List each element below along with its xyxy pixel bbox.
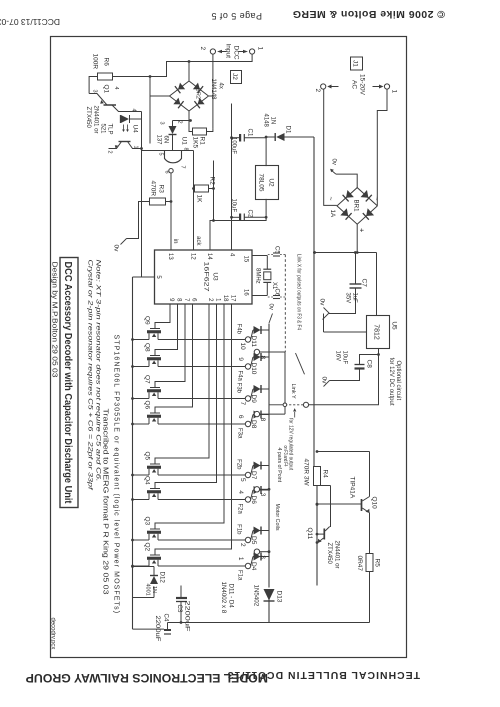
svg-text:13: 13 xyxy=(167,253,173,260)
svg-text:Q3: Q3 xyxy=(143,516,150,525)
svg-text:on F3 and F4: on F3 and F4 xyxy=(282,445,288,466)
svg-text:F2b: F2b xyxy=(235,459,241,470)
svg-text:1N4002 x 8: 1N4002 x 8 xyxy=(220,581,227,613)
svg-text:17: 17 xyxy=(229,294,235,301)
svg-text:10uF: 10uF xyxy=(341,350,347,364)
svg-text:2N4401 or: 2N4401 or xyxy=(92,105,98,133)
svg-text:C2: C2 xyxy=(246,209,253,217)
svg-text:1N: 1N xyxy=(151,586,157,593)
svg-text:1K5: 1K5 xyxy=(191,136,198,148)
svg-text:4: 4 xyxy=(228,253,234,257)
svg-text:2: 2 xyxy=(239,543,246,547)
svg-text:0v: 0v xyxy=(330,158,336,164)
svg-text:D9: D9 xyxy=(250,394,257,403)
svg-text:0v: 0v xyxy=(320,376,327,384)
svg-text:BR2: BR2 xyxy=(194,87,200,98)
svg-text:1: 1 xyxy=(256,46,263,50)
svg-text:16V: 16V xyxy=(334,350,340,361)
svg-text:10: 10 xyxy=(239,342,246,350)
svg-text:C7: C7 xyxy=(360,278,367,287)
svg-text:TIP41A: TIP41A xyxy=(348,476,355,498)
svg-text:4: 4 xyxy=(237,490,244,494)
svg-text:1: 1 xyxy=(132,145,138,148)
svg-text:6: 6 xyxy=(163,170,169,173)
svg-text:1N5402: 1N5402 xyxy=(252,584,259,606)
svg-text:0v: 0v xyxy=(318,298,325,306)
svg-text:R1: R1 xyxy=(198,136,205,145)
svg-text:Q11: Q11 xyxy=(306,527,313,539)
svg-text:0R47: 0R47 xyxy=(356,555,363,571)
svg-text:U4: U4 xyxy=(131,124,138,133)
svg-text:4 pairs of Point: 4 pairs of Point xyxy=(276,447,282,482)
svg-text:6: 6 xyxy=(190,298,196,302)
svg-text:in: in xyxy=(172,238,178,243)
svg-text:~: ~ xyxy=(372,196,379,200)
svg-text:1K: 1K xyxy=(195,194,202,203)
svg-text:1N: 1N xyxy=(269,116,275,124)
svg-text:J2: J2 xyxy=(231,73,238,80)
svg-text:7: 7 xyxy=(183,298,189,302)
svg-text:F2a: F2a xyxy=(236,503,242,514)
svg-text:TLP: TLP xyxy=(106,123,112,134)
svg-text:C3: C3 xyxy=(176,604,183,612)
svg-text:C4: C4 xyxy=(162,613,169,621)
svg-text:1: 1 xyxy=(390,89,397,93)
svg-text:R5: R5 xyxy=(373,558,380,567)
svg-text:1A: 1A xyxy=(329,209,336,217)
svg-text:D13: D13 xyxy=(275,590,282,602)
svg-text:3: 3 xyxy=(259,555,266,559)
svg-text:4: 4 xyxy=(113,86,119,89)
svg-text:3: 3 xyxy=(259,492,266,496)
svg-text:Link X for pulsed outputs on F: Link X for pulsed outputs on F3 & F4 xyxy=(295,254,301,330)
svg-text:Design by M.P.Bolton 29 05 0: Design by M.P.Bolton 29 05 03 xyxy=(50,261,57,377)
svg-text:DCC Accessory Decoder with Cap: DCC Accessory Decoder with Capacitor Dis… xyxy=(62,261,73,504)
svg-text:Q5: Q5 xyxy=(143,451,150,460)
svg-text:U3: U3 xyxy=(211,272,218,281)
svg-text:12: 12 xyxy=(189,253,195,260)
svg-text:D11 - D4: D11 - D4 xyxy=(227,583,234,608)
svg-text:8: 8 xyxy=(182,147,188,150)
svg-text:C5: C5 xyxy=(273,246,279,254)
svg-text:Q10: Q10 xyxy=(370,496,377,509)
svg-text:3: 3 xyxy=(158,121,164,124)
svg-text:AC: AC xyxy=(350,79,357,88)
svg-text:78L05: 78L05 xyxy=(257,173,264,191)
svg-text:+: + xyxy=(357,228,366,233)
svg-text:7812: 7812 xyxy=(372,324,379,340)
svg-text:1uF: 1uF xyxy=(351,292,357,303)
svg-text:137: 137 xyxy=(155,134,161,145)
svg-text:DCC: DCC xyxy=(232,45,239,59)
svg-text:2: 2 xyxy=(199,46,206,50)
svg-text:9: 9 xyxy=(168,298,174,302)
svg-text:0v: 0v xyxy=(112,244,119,252)
svg-text:470R: 470R xyxy=(149,180,156,196)
svg-text:2200uF: 2200uF xyxy=(154,615,161,641)
svg-text:~: ~ xyxy=(326,196,333,200)
svg-text:D11: D11 xyxy=(250,335,257,347)
svg-text:7: 7 xyxy=(179,165,185,168)
svg-text:2200uF: 2200uF xyxy=(183,600,190,631)
svg-text:F1b: F1b xyxy=(235,524,241,535)
svg-text:D6: D6 xyxy=(250,495,257,504)
svg-text:100uF: 100uF xyxy=(230,137,236,154)
svg-text:2N4401 or: 2N4401 or xyxy=(333,540,339,568)
svg-text:U1: U1 xyxy=(180,136,187,145)
svg-text:D1: D1 xyxy=(284,125,291,133)
svg-text:Q1: Q1 xyxy=(102,84,109,93)
svg-text:Q6: Q6 xyxy=(143,400,150,409)
svg-text:ZTX450: ZTX450 xyxy=(326,542,332,564)
svg-text:Input: Input xyxy=(224,43,231,58)
svg-text:R4: R4 xyxy=(321,469,328,478)
svg-text:4x: 4x xyxy=(217,82,223,88)
svg-text:R2: R2 xyxy=(208,176,215,185)
svg-text:14: 14 xyxy=(206,253,212,260)
svg-text:7: 7 xyxy=(239,401,246,405)
svg-text:Q7: Q7 xyxy=(143,375,150,384)
svg-text:5: 5 xyxy=(155,275,161,279)
svg-text:18: 18 xyxy=(222,294,228,301)
svg-text:5: 5 xyxy=(239,478,246,482)
svg-text:10uF: 10uF xyxy=(230,198,236,212)
svg-text:16: 16 xyxy=(242,289,248,296)
svg-text:4001: 4001 xyxy=(144,583,150,595)
svg-text:F4a: F4a xyxy=(236,370,242,381)
svg-text:8: 8 xyxy=(259,417,266,421)
svg-text:9: 9 xyxy=(237,357,244,361)
svg-text:R6: R6 xyxy=(102,57,109,66)
svg-text:D4: D4 xyxy=(250,562,257,571)
svg-text:35V: 35V xyxy=(344,292,350,303)
svg-text:15-20V: 15-20V xyxy=(358,74,365,96)
svg-text:521: 521 xyxy=(99,123,105,134)
svg-text:4: 4 xyxy=(130,108,136,111)
svg-text:C6: C6 xyxy=(273,288,279,296)
svg-text:470R 3W: 470R 3W xyxy=(302,458,309,486)
svg-text:100R: 100R xyxy=(91,53,98,69)
svg-text:4148: 4148 xyxy=(262,113,268,127)
svg-text:D10: D10 xyxy=(250,362,257,374)
svg-text:STP16NE06L FP3055LE or equi: STP16NE06L FP3055LE or equivalent (logic… xyxy=(112,334,119,614)
svg-text:2: 2 xyxy=(176,120,182,123)
svg-text:D12: D12 xyxy=(158,571,165,583)
svg-text:D5: D5 xyxy=(250,536,257,545)
svg-text:16F627: 16F627 xyxy=(202,261,209,292)
svg-text:Note: XT 3-pin resonator does: Note: XT 3-pin resonator does not requir… xyxy=(94,259,101,481)
svg-text:2: 2 xyxy=(106,150,112,153)
svg-text:J1: J1 xyxy=(351,60,358,67)
svg-text:8: 8 xyxy=(175,298,181,302)
svg-text:5: 5 xyxy=(157,152,163,155)
svg-text:Q9: Q9 xyxy=(143,316,150,325)
svg-text:Link Y: Link Y xyxy=(290,383,296,399)
svg-text:D8: D8 xyxy=(250,420,257,429)
svg-text:Crystal or 2-pin resonator req: Crystal or 2-pin resonator requires C5 +… xyxy=(86,259,93,491)
svg-text:Q8: Q8 xyxy=(143,343,150,352)
svg-text:F1a: F1a xyxy=(236,570,242,581)
svg-text:decodrv.pcx: decodrv.pcx xyxy=(49,617,55,649)
svg-text:1: 1 xyxy=(237,556,244,560)
svg-text:Q2: Q2 xyxy=(143,542,150,551)
svg-text:U2: U2 xyxy=(267,178,274,187)
svg-text:U5: U5 xyxy=(390,321,397,330)
svg-text:D7: D7 xyxy=(250,471,257,480)
svg-text:6: 6 xyxy=(237,414,244,418)
svg-text:C1: C1 xyxy=(246,128,253,136)
svg-text:Transcribed to MERG format P R: Transcribed to MERG format P R King 29 0… xyxy=(101,408,108,594)
svg-text:F3b: F3b xyxy=(235,382,241,393)
svg-text:Optional circuit: Optional circuit xyxy=(395,360,401,400)
svg-text:F3a: F3a xyxy=(236,428,242,439)
svg-text:0v: 0v xyxy=(267,303,273,309)
svg-text:R3: R3 xyxy=(157,184,164,193)
svg-text:ZTX450: ZTX450 xyxy=(85,106,91,128)
svg-text:8: 8 xyxy=(259,355,266,359)
svg-text:8MHz: 8MHz xyxy=(254,268,260,284)
svg-text:15: 15 xyxy=(242,255,248,262)
svg-text:3: 3 xyxy=(91,89,97,92)
svg-text:6N: 6N xyxy=(162,135,168,143)
svg-text:Motor Coils: Motor Coils xyxy=(274,503,280,530)
svg-text:Q4: Q4 xyxy=(143,476,150,485)
svg-text:for 12V DC output: for 12V DC output xyxy=(388,357,394,405)
svg-text:BR1: BR1 xyxy=(352,199,359,212)
svg-text:ack: ack xyxy=(195,236,201,246)
svg-text:1: 1 xyxy=(214,298,220,302)
svg-text:F4b: F4b xyxy=(235,323,241,334)
svg-text:2: 2 xyxy=(207,298,213,302)
svg-text:C8: C8 xyxy=(365,359,372,368)
svg-text:2: 2 xyxy=(314,88,321,92)
